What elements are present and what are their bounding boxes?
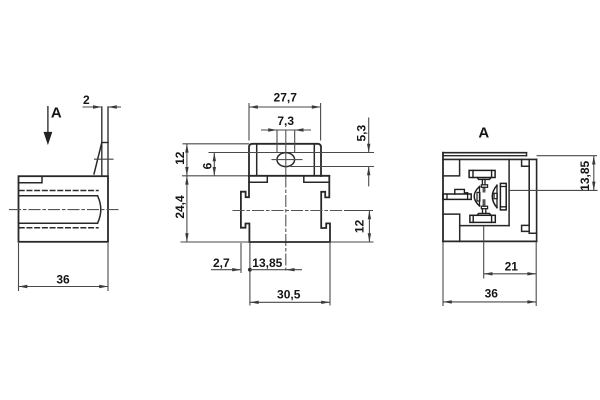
terminal bottom bar left cap line [472, 215, 474, 222]
terminal left blade hump [455, 189, 468, 194]
hole horizontal center line [272, 159, 302, 161]
body left edge [442, 153, 444, 242]
view arrow A shaft [47, 107, 49, 133]
top strip right end [526, 153, 528, 156]
dim 12 left [183, 144, 250, 176]
dim 5,3 [367, 118, 370, 187]
body left profile [241, 176, 250, 242]
top strip upper line [443, 152, 527, 154]
body right profile [321, 176, 330, 242]
terminal left blade [443, 194, 471, 199]
extension line right [107, 243, 109, 291]
dim 21 [484, 243, 537, 279]
svg-text:12: 12 [173, 151, 187, 165]
top-left step notch [19, 176, 43, 183]
view arrow A head [44, 132, 53, 145]
bottom terminal center line [483, 227, 485, 278]
terminal top stem [482, 179, 485, 184]
svg-text:36: 36 [485, 287, 499, 301]
bottom extension line left [181, 241, 249, 243]
svg-text:36: 36 [56, 272, 70, 286]
svg-text:2,7: 2,7 [213, 256, 230, 270]
terminal bottom stem cap [481, 206, 487, 209]
dim 30,5 [250, 243, 330, 306]
svg-text:21: 21 [505, 259, 519, 273]
tab top inner tick [102, 142, 108, 144]
shelf line [249, 175, 329, 177]
svg-text:30,5: 30,5 [277, 288, 301, 302]
svg-text:2: 2 [83, 93, 90, 107]
svg-text:24,4: 24,4 [173, 195, 187, 219]
svg-text:13,85: 13,85 [252, 256, 282, 270]
svg-text:A: A [51, 105, 62, 122]
terminal bottom trapezoid [477, 213, 491, 215]
dim 24,4 [185, 176, 188, 242]
terminal top trapezoid [477, 178, 491, 180]
bracket tab outline [249, 144, 321, 176]
cavity top-left pocket [443, 159, 460, 176]
hidden dashed line lower [20, 227, 99, 229]
tab fold / hole top tangent line [209, 152, 374, 154]
shelf underside right segment [304, 176, 330, 182]
cavity bottom wall [460, 225, 509, 227]
terminal top bar [469, 170, 495, 177]
inner solid line lower [19, 222, 98, 224]
dim 13,85 right view [537, 156, 597, 191]
terminal top bar right cap line [491, 170, 493, 177]
tab diagonal [94, 143, 102, 175]
mounting tab right line [107, 107, 109, 176]
svg-text:12: 12 [353, 219, 367, 233]
terminal bottom bar right cap line [491, 215, 493, 222]
dim 36 right view [443, 243, 536, 307]
tab inner left line [256, 145, 258, 176]
tab cross tick [95, 158, 114, 160]
right rail inner edge [528, 166, 530, 225]
terminal top stem cap [481, 185, 487, 188]
inner bore arc right end [98, 196, 101, 224]
top strip lower line [443, 155, 527, 157]
terminal left blade cap lines [447, 193, 468, 200]
dim 2 (left view tab width) [83, 105, 122, 108]
terminal top bar left cap line [472, 170, 474, 177]
dim 6 [213, 153, 216, 176]
right terminal notch [494, 193, 497, 198]
right rail outer edge [536, 159, 538, 241]
cavity right wall [508, 159, 510, 225]
bottom-right clip notch [522, 225, 530, 231]
top-right clip notch [522, 159, 530, 166]
body outline [19, 176, 109, 242]
right terminal blade cap lines [500, 187, 506, 207]
body horizontal center line [233, 210, 345, 212]
cavity bottom-left pocket [443, 214, 460, 241]
tab inner right line [313, 145, 315, 176]
center line solid extension right [345, 210, 372, 212]
svg-text:13,85: 13,85 [578, 160, 592, 190]
body top inner line [443, 158, 537, 160]
dim 27,7 [249, 103, 321, 141]
terminal top stem tip [483, 187, 485, 192]
center line horizontal [10, 209, 119, 211]
center D element arc [474, 187, 479, 206]
dim 13,85 [248, 243, 302, 306]
dim 36 (left view) [19, 243, 109, 291]
inner solid line upper [19, 195, 98, 197]
hidden dashed line upper [20, 190, 99, 192]
center D element flat side [479, 187, 481, 206]
hole [277, 153, 295, 167]
right terminal D flat [496, 185, 498, 208]
extension line left [18, 243, 20, 291]
mounting tab left line [101, 107, 103, 176]
dim 2,7 [211, 243, 241, 273]
terminal bottom bar [470, 215, 495, 222]
svg-text:5,3: 5,3 [354, 125, 368, 142]
right terminal center line [510, 189, 597, 191]
vertical center line lower dash-dot [285, 176, 287, 270]
terminal bottom stem [483, 209, 486, 214]
body bottom edge [249, 241, 330, 243]
shelf underside left segment [249, 176, 267, 182]
shelf line thin extension [183, 175, 250, 177]
svg-text:A: A [478, 125, 489, 142]
svg-text:6: 6 [201, 162, 215, 169]
svg-text:7,3: 7,3 [277, 114, 294, 128]
dim 7,3 [261, 128, 311, 152]
dimension line [19, 286, 109, 288]
right terminal blade [500, 183, 506, 210]
svg-text:27,7: 27,7 [274, 91, 298, 105]
vertical center line upper [285, 131, 287, 176]
bottom-right step [529, 231, 536, 233]
bottom extension line right [330, 241, 373, 243]
dim 12 right [368, 211, 371, 243]
body bottom edge [443, 240, 537, 242]
right terminal D arc [492, 185, 497, 208]
hole bottom tangent line [291, 166, 374, 168]
center D notch [477, 192, 480, 201]
terminal bottom stem tip [483, 200, 485, 206]
